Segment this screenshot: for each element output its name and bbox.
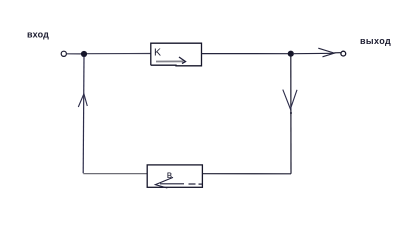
wire node A to block K [87, 53, 151, 55]
wire input to node A [67, 53, 81, 55]
output arrowhead [318, 48, 334, 57]
node B junction [288, 51, 294, 57]
node A junction [81, 51, 87, 57]
arrow inside K [156, 60, 184, 62]
block K [151, 43, 202, 66]
arrow up on left riser [78, 94, 87, 107]
wire node B to output arrow [294, 52, 335, 54]
wire bottom right [202, 173, 291, 175]
block B [147, 165, 202, 187]
input terminal [61, 51, 66, 56]
svg-text:K: K [154, 47, 161, 59]
svg-text:вход: вход [27, 30, 49, 40]
arrow down on right riser [283, 90, 297, 109]
wire K to node B [202, 53, 289, 55]
svg-text:выход: выход [360, 36, 391, 46]
wire right riser [290, 56, 292, 174]
output terminal [341, 51, 346, 56]
wire left riser [82, 56, 85, 173]
dashed arrow inside B [155, 177, 173, 188]
wire bottom left [83, 173, 147, 175]
